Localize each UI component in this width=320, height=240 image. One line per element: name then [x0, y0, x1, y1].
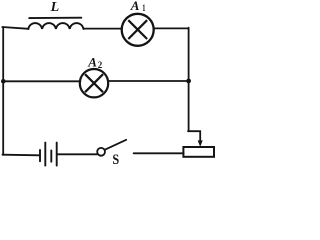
- wire: bottom-left corner to battery: [2, 154, 39, 157]
- wire: ammeter A1 to top-right corner: [154, 27, 189, 29]
- battery cell 1 long plate: [44, 143, 46, 166]
- node: junction dot on left branch: [1, 79, 6, 84]
- ammeter A2 cross: [85, 74, 103, 92]
- wire: jog to rheostat wiper: [188, 131, 200, 141]
- svg-text:A: A: [87, 55, 97, 70]
- svg-text:A: A: [130, 0, 140, 13]
- battery cell 2 long plate: [56, 143, 58, 166]
- switch S pivot circle: [97, 148, 105, 156]
- battery cell 2 short plate: [50, 151, 52, 162]
- battery cell 1 short plate: [39, 150, 41, 161]
- wire: middle branch left of A2: [3, 80, 81, 82]
- ammeter A1 cross: [128, 20, 147, 39]
- ammeter A2 circle: [80, 69, 108, 97]
- wire: inductor to ammeter A1: [84, 28, 122, 30]
- svg-text:1: 1: [142, 3, 146, 13]
- wire: right vertical branch: [188, 28, 190, 132]
- wire: battery to switch: [57, 153, 97, 155]
- wire: middle branch right of A2: [108, 80, 189, 82]
- wire: top from left corner to inductor: [2, 27, 28, 29]
- inductor L coil humps: [28, 23, 83, 29]
- wire: left vertical branch: [2, 27, 4, 155]
- rheostat wiper arrowhead: [198, 140, 203, 147]
- wire: switch to rheostat: [134, 152, 184, 154]
- inductor L core bar: [29, 17, 81, 19]
- switch S lever: [105, 140, 127, 150]
- svg-text:S: S: [112, 152, 119, 167]
- svg-text:2: 2: [98, 60, 103, 70]
- node: junction dot on right branch: [186, 79, 191, 84]
- ammeter A1 circle: [122, 14, 154, 46]
- rheostat R body: [183, 147, 214, 157]
- svg-text:L: L: [50, 0, 60, 15]
